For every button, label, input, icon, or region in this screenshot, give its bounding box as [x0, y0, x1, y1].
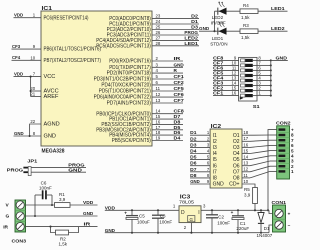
- svg-text:19: 19: [156, 136, 161, 141]
- S1 switch element 5: [241, 79, 257, 82]
- net CF2 to S1 pin 15: [213, 86, 239, 92]
- connector CON3 body: [12, 200, 27, 244]
- svg-text:16: 16: [232, 91, 237, 96]
- IC1 pin 8 GND: [14, 131, 56, 140]
- svg-text:D6: D6: [190, 161, 197, 166]
- junction R5 raw rail: [254, 209, 256, 211]
- svg-text:I: I: [198, 210, 199, 216]
- svg-text:14: 14: [243, 155, 248, 160]
- IC1 pin 5 PD3(INT1/OC2B/PCINT19) net CF1: [94, 74, 184, 83]
- svg-text:C5: C5: [139, 214, 145, 219]
- svg-text:1,5k: 1,5k: [241, 15, 250, 20]
- wire VDD to AVCC/AREF: [30, 76, 32, 97]
- svg-text:VDD: VDD: [14, 72, 23, 77]
- svg-text:10: 10: [243, 179, 248, 184]
- net GND at LEDs: [199, 26, 215, 32]
- CON3 terminal V: [6, 201, 25, 209]
- svg-text:1,5k: 1,5k: [241, 35, 250, 40]
- svg-text:IC1: IC1: [42, 6, 53, 12]
- svg-text:13: 13: [243, 161, 248, 166]
- svg-text:IC2: IC2: [211, 124, 222, 130]
- svg-text:PD4(T0/XCK/PCINT20): PD4(T0/XCK/PCINT20): [101, 83, 151, 89]
- S1 pin 1 wire to GND bus: [257, 91, 272, 97]
- svg-text:O8: O8: [233, 176, 240, 182]
- IC2 pin 7 I7 net D7: [190, 167, 217, 176]
- IC2 pin 5 I5 net D5: [190, 155, 217, 164]
- IC IC1 MEGA328 body: [41, 6, 152, 155]
- svg-text:CON3: CON3: [12, 238, 27, 244]
- IC2 pin 1 I1 net D1: [190, 130, 217, 139]
- svg-text:D6: D6: [174, 130, 181, 136]
- svg-text:10: 10: [30, 55, 35, 60]
- svg-text:14: 14: [156, 109, 161, 114]
- svg-text:I8: I8: [213, 176, 217, 182]
- svg-text:O6: O6: [233, 163, 240, 169]
- svg-text:PD0(RXD/PCINT16): PD0(RXD/PCINT16): [109, 59, 151, 65]
- IC2 pin 9 GND net GND: [190, 179, 224, 188]
- svg-text:GND: GND: [276, 55, 288, 61]
- capacitor C3 100nF: [152, 209, 172, 234]
- IC2 pin 4 I4 net D4: [190, 149, 217, 158]
- svg-text:21: 21: [30, 92, 35, 97]
- svg-text:O3: O3: [233, 145, 240, 151]
- svg-text:100uF: 100uF: [137, 219, 150, 224]
- S1 pin 3 wire to GND bus: [257, 81, 272, 87]
- svg-text:IR: IR: [84, 222, 91, 228]
- CON1 terminal +: [275, 209, 291, 217]
- svg-text:GND: GND: [68, 167, 82, 173]
- CON3 terminal G: [6, 212, 25, 220]
- svg-text:18: 18: [243, 130, 248, 135]
- svg-text:I3: I3: [213, 145, 217, 151]
- svg-text:CF7: CF7: [174, 98, 184, 104]
- svg-text:JP1: JP1: [27, 158, 37, 163]
- net CF3 to S1 pin 14: [213, 81, 239, 87]
- IC1 pin 18 PB4(MISO/PCINT4) net D6: [109, 130, 183, 139]
- svg-text:CF3: CF3: [12, 44, 21, 49]
- svg-text:D5: D5: [174, 125, 181, 131]
- S1 switch element 6: [241, 84, 257, 87]
- svg-text:12: 12: [156, 92, 161, 97]
- svg-text:PD7(AIN1/PCINT23): PD7(AIN1/PCINT23): [107, 101, 151, 107]
- IC2 pin 15 O4 wire to CON2: [233, 148, 277, 157]
- svg-text:17: 17: [243, 136, 248, 141]
- svg-text:VDD: VDD: [83, 200, 94, 206]
- svg-text:100nF: 100nF: [159, 219, 172, 224]
- resistor R1 3,9: [55, 192, 71, 208]
- IC2 pin 13 O6 wire to CON2: [233, 161, 277, 170]
- svg-text:CF6: CF6: [174, 92, 184, 98]
- capacitor C5 100uF: [124, 209, 150, 234]
- IC2 pin 2 I2 net D2: [190, 136, 217, 145]
- svg-text:+: +: [124, 210, 127, 215]
- svg-text:C2: C2: [218, 214, 224, 219]
- svg-text:IC3: IC3: [180, 194, 191, 200]
- IC1 pin 1 PC6(RESET/PCINT14): [14, 13, 89, 22]
- net CF5 to S1 pin 12: [213, 71, 239, 77]
- CON2 pin 3: [279, 159, 295, 164]
- IC1 pin 20 AVCC: [30, 86, 58, 95]
- svg-text:+: +: [291, 127, 294, 132]
- svg-text:16: 16: [156, 119, 161, 124]
- svg-text:220uF: 220uF: [236, 226, 249, 231]
- net VDD after R1: [70, 200, 98, 206]
- net PROG from JP1: [31, 163, 86, 169]
- IC2 pin 3 I3 net D3: [190, 142, 217, 151]
- svg-text:GND: GND: [83, 211, 94, 217]
- svg-text:CF1: CF1: [174, 74, 184, 80]
- CON1 terminal −: [275, 221, 291, 229]
- IC2 pin 10 CD+ wire to R5: [229, 179, 255, 188]
- svg-text:D3: D3: [191, 25, 198, 31]
- IC1 pin 21 AREF: [30, 92, 59, 101]
- S1 switch element 3: [241, 69, 257, 72]
- svg-text:28: 28: [156, 41, 161, 46]
- svg-text:S1: S1: [253, 104, 260, 110]
- S1 pin 7 wire to GND bus: [257, 60, 272, 66]
- svg-text:GND: GND: [14, 131, 24, 136]
- IC1 pin 24 PC1(ADC1/PCINT9) net D1: [109, 19, 199, 28]
- svg-text:D5: D5: [190, 155, 197, 160]
- svg-text:D8: D8: [190, 173, 197, 178]
- S1 switch element 2: [241, 64, 257, 67]
- svg-text:I6: I6: [213, 163, 217, 169]
- svg-text:GND: GND: [213, 182, 225, 188]
- S1 switch element 4: [241, 74, 257, 77]
- LED LED1 STD/ON: [210, 22, 240, 47]
- svg-text:PROG: PROG: [184, 30, 198, 36]
- svg-text:1,5k: 1,5k: [59, 242, 68, 247]
- IC2 pin 6 I6 net D6: [190, 161, 217, 170]
- svg-text:+: +: [288, 212, 291, 217]
- IC1 pin 12 PD6(AIN0/OC0A/PCINT22) net CF6: [94, 92, 184, 101]
- resistor R4 1,5k: [240, 3, 258, 20]
- net CF4 to S1 pin 13: [213, 76, 239, 82]
- resistor R2 1,5k: [51, 227, 79, 247]
- net GND rail: [105, 228, 269, 234]
- IC1 pin 10 PB7(XTAL2/TOSC2/PCINT7): [12, 55, 102, 64]
- resistor R5 3,9: [244, 187, 257, 211]
- svg-text:I5: I5: [213, 157, 217, 163]
- svg-text:GND: GND: [44, 134, 56, 140]
- wire S1 GND bus: [270, 60, 272, 95]
- junction GND pin8/pin22: [29, 135, 31, 137]
- svg-text:O7: O7: [233, 169, 240, 175]
- svg-text:D: D: [181, 210, 185, 216]
- jumper JP1: [23, 158, 37, 175]
- S1 switch element 7: [241, 89, 257, 92]
- IC2 pin 14 O5 wire to CON2: [233, 155, 277, 164]
- IC1 pin 28 PC5(ADC5/SCL/PCINT13) net LED1: [96, 41, 199, 50]
- LED LED2 IR/OFF: [211, 2, 240, 26]
- IC2 pin 12 O7 wire to CON2: [233, 166, 277, 175]
- svg-text:22: 22: [30, 119, 35, 124]
- CON2 pin +: [279, 127, 295, 132]
- CON2 pin 7: [279, 138, 295, 143]
- svg-text:STD/ON: STD/ON: [210, 41, 227, 46]
- S1 switch element 8: [241, 94, 257, 97]
- switch S1 body: [239, 57, 260, 109]
- IC1 pin 26 PC3(ADC3/PCINT11) net PROG: [107, 30, 199, 39]
- svg-text:GND: GND: [190, 179, 200, 184]
- svg-text:23: 23: [156, 14, 161, 19]
- net CF1 to S1 pin 16: [213, 91, 239, 97]
- svg-text:I4: I4: [213, 151, 217, 157]
- svg-text:D8: D8: [174, 119, 181, 125]
- svg-text:15: 15: [243, 148, 248, 153]
- svg-text:25: 25: [156, 25, 161, 30]
- svg-text:CF2: CF2: [174, 80, 184, 86]
- net LED2 (to pin 27): [258, 26, 288, 32]
- svg-text:R5: R5: [244, 187, 250, 192]
- svg-text:CF5: CF5: [174, 86, 184, 92]
- svg-text:VDD: VDD: [14, 13, 23, 18]
- svg-text:11: 11: [156, 86, 161, 91]
- svg-text:100nF: 100nF: [217, 221, 230, 226]
- svg-text:CF4: CF4: [12, 55, 21, 60]
- svg-text:G: G: [6, 214, 10, 220]
- svg-text:PB7(XTAL2/TOSC2/PCINT7): PB7(XTAL2/TOSC2/PCINT7): [44, 58, 102, 64]
- svg-text:CON2: CON2: [276, 121, 291, 127]
- wire raw rail to CON1 +: [269, 210, 273, 213]
- svg-text:IR: IR: [3, 224, 8, 230]
- svg-text:3,9: 3,9: [59, 197, 66, 202]
- svg-text:D4: D4: [174, 136, 181, 142]
- svg-text:VDD: VDD: [105, 206, 116, 212]
- svg-text:PB6(XTAL1/TOSC1/PCINT6): PB6(XTAL1/TOSC1/PCINT6): [44, 47, 102, 53]
- capacitor C1 220uF: [231, 209, 250, 234]
- S1 pin 5 wire to GND bus: [257, 71, 272, 77]
- CON2 pin 4: [279, 154, 295, 159]
- svg-text:MEGA328: MEGA328: [42, 149, 65, 155]
- svg-text:IR: IR: [174, 56, 181, 62]
- IC1 pin 3 PD1(TXD/PCINT17) net GND: [109, 62, 184, 71]
- IC1 pin 4 PD2(INT0/PCINT18) net R: [107, 68, 183, 77]
- IC1 pin 27 PC4(ADC4/SDA/PCINT12) net LED2: [96, 35, 199, 44]
- capacitor C2 100nF: [206, 209, 230, 234]
- svg-text:16: 16: [243, 142, 248, 147]
- S1 pin 8 wire to GND bus: [257, 55, 272, 61]
- IC1 pin 15 PB1(OC1A/PCINT1) net D7: [109, 114, 183, 123]
- S1 pin 2 wire to GND bus: [257, 86, 272, 92]
- svg-text:R4: R4: [243, 3, 249, 8]
- svg-text:1N4007: 1N4007: [257, 233, 273, 238]
- svg-text:15: 15: [156, 114, 161, 119]
- wire CON1 - to GND rail: [269, 225, 273, 233]
- svg-text:AGND: AGND: [44, 122, 60, 128]
- svg-text:O5: O5: [233, 157, 240, 163]
- IC IC3 78L05 regulator: [173, 194, 206, 233]
- svg-text:GND: GND: [174, 62, 185, 68]
- svg-text:O4: O4: [233, 151, 240, 157]
- svg-text:O1: O1: [233, 133, 240, 139]
- S1 pin 6 wire to GND bus: [257, 65, 272, 71]
- svg-text:100nF: 100nF: [39, 185, 52, 190]
- IC2 pin 17 O2 wire to CON2: [233, 136, 277, 145]
- net PROG at JP1: [7, 167, 24, 173]
- CON2 pin 8: [279, 133, 295, 138]
- svg-text:D7: D7: [174, 114, 181, 120]
- svg-text:I7: I7: [213, 169, 217, 175]
- svg-text:17: 17: [156, 125, 161, 130]
- svg-text:+: +: [231, 210, 234, 215]
- svg-text:3,9: 3,9: [244, 193, 251, 198]
- wire CON2 + to raw rail: [267, 130, 277, 212]
- CON2 pin 2: [279, 164, 295, 169]
- svg-text:PC6(RESET/PCINT14): PC6(RESET/PCINT14): [44, 15, 89, 21]
- svg-text:LED1: LED1: [212, 36, 224, 41]
- svg-text:78L05: 78L05: [179, 200, 194, 206]
- svg-text:27: 27: [156, 35, 161, 40]
- IC1 pin 25 PC2(ADC2/PCINT10) net D3: [107, 25, 199, 34]
- IC IC2 body: [210, 124, 242, 188]
- resistor R3 1,5k: [240, 23, 258, 40]
- svg-text:12: 12: [243, 167, 248, 172]
- IC1 pin 22 AGND: [30, 119, 60, 136]
- S1 pin 4 wire to GND bus: [257, 76, 272, 82]
- net LED1 (to pin 28): [258, 6, 288, 12]
- svg-text:I1: I1: [213, 133, 217, 139]
- net GND at S1: [271, 55, 288, 61]
- svg-text:24: 24: [156, 19, 161, 24]
- svg-text:D1: D1: [191, 19, 198, 25]
- wire raw rail: [201, 209, 269, 211]
- svg-text:D1: D1: [190, 130, 197, 135]
- IC1 pin 9 PB6(XTAL1/TOSC1/PCINT6): [12, 44, 102, 53]
- svg-text:LED1: LED1: [271, 6, 285, 12]
- svg-text:18: 18: [156, 130, 161, 135]
- IC2 pin 8 I8 net D8: [190, 173, 217, 182]
- net GND from JP1: [31, 167, 86, 173]
- svg-text:11: 11: [243, 173, 248, 178]
- IC1 pin 17 PB3(MOSI/OC2A/PCINT3) net D5: [96, 125, 183, 134]
- svg-text:LED2: LED2: [271, 26, 285, 32]
- svg-text:I2: I2: [213, 139, 217, 145]
- diode D1 1N4007: [257, 209, 273, 238]
- S1 switch element 1: [241, 59, 257, 62]
- svg-text:D4: D4: [190, 149, 197, 154]
- svg-text:LED1: LED1: [184, 41, 198, 47]
- svg-text:R: R: [174, 68, 178, 74]
- svg-text:R3: R3: [243, 23, 249, 28]
- IC1 pin 16 PB2(SS/OC1B/PCINT2) net D8: [101, 119, 183, 128]
- IC2 pin 18 O1 wire to CON2: [233, 130, 277, 139]
- IC1 pin 6 PD4(T0/XCK/PCINT20) net CF2: [101, 80, 184, 89]
- svg-text:PD5(T1/OC0B/PCINT21): PD5(T1/OC0B/PCINT21): [99, 89, 151, 95]
- IC1 pin 11 PD5(T1/OC0B/PCINT21) net CF5: [99, 86, 184, 95]
- wire G line: [26, 211, 98, 217]
- svg-text:26: 26: [156, 30, 161, 35]
- svg-text:PC5(ADC5/SCL/PCINT13): PC5(ADC5/SCL/PCINT13): [96, 43, 151, 49]
- svg-text:1: 1: [291, 169, 294, 174]
- IC1 pin 7 VCC: [14, 72, 56, 81]
- svg-text:CD+: CD+: [229, 182, 240, 188]
- IC1 pin 23 PC0(ADC0/PCINT8) net D2: [109, 14, 199, 23]
- svg-text:PROG: PROG: [7, 167, 24, 173]
- connector CON1 body: [272, 200, 287, 232]
- svg-text:IR/OFF: IR/OFF: [211, 20, 226, 25]
- svg-text:D2: D2: [190, 136, 197, 141]
- svg-text:VCC: VCC: [44, 74, 56, 80]
- svg-text:LED2: LED2: [184, 35, 198, 41]
- CON2 pin 1: [279, 169, 295, 174]
- capacitor C6 100nF: [34, 180, 52, 217]
- svg-text:G: G: [190, 217, 194, 222]
- net CF6 to S1 pin 11: [213, 65, 239, 71]
- svg-text:C3: C3: [160, 213, 166, 218]
- svg-text:CON1: CON1: [272, 200, 287, 206]
- wire IR line: [26, 222, 98, 228]
- svg-text:D3: D3: [190, 142, 197, 147]
- net CF7 to S1 pin 10: [213, 60, 239, 66]
- IC1 pin 19 PB5(SCK/PCINT5) net D4: [112, 136, 183, 145]
- CON2 pin 6: [279, 143, 295, 148]
- svg-text:O2: O2: [233, 139, 240, 145]
- IC2 pin 11 O8 wire to CON2: [233, 171, 277, 181]
- svg-text:AREF: AREF: [44, 94, 60, 100]
- svg-text:13: 13: [156, 98, 161, 103]
- IC1 pin 2 PD0(RXD/PCINT16) net IR: [109, 56, 183, 65]
- svg-text:CF8: CF8: [174, 109, 184, 115]
- wire LED common vertical: [213, 11, 215, 32]
- net VDD rail: [105, 206, 179, 212]
- CON2 pin 5: [279, 148, 295, 153]
- net CF8 to S1 pin 9: [213, 55, 239, 61]
- svg-text:PB5(SCK/PCINT5): PB5(SCK/PCINT5): [112, 138, 151, 144]
- IC1 pin 14 PB0(ICP1/CLKO/PCINT0) net CF8: [96, 109, 184, 118]
- svg-text:R2: R2: [60, 236, 66, 241]
- IC1 pin 13 PD7(AIN1/PCINT23) net CF7: [107, 98, 184, 107]
- svg-text:D7: D7: [190, 167, 197, 172]
- CON3 terminal IR: [3, 223, 24, 231]
- IC2 pin 16 O3 wire to CON2: [233, 142, 277, 151]
- svg-text:D2: D2: [191, 14, 198, 20]
- svg-text:−: −: [288, 223, 291, 228]
- wire V line: [26, 204, 55, 206]
- connector CON2 body: [276, 121, 291, 180]
